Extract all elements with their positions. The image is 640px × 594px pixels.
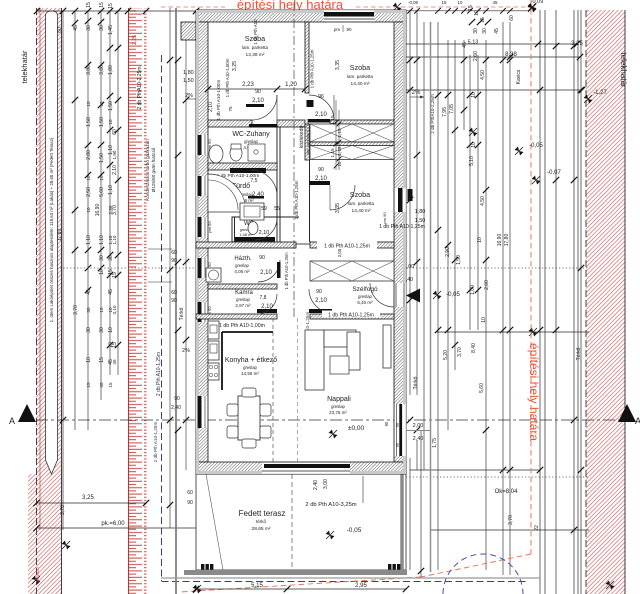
red dashed building limit vertical [530,0,532,554]
door arc middle szoba [330,185,355,210]
TL szoba door bar [249,124,277,128]
svg-text:90: 90 [259,255,265,261]
svg-text:90: 90 [346,27,352,32]
svg-text:1 db Pth A10-1,00m: 1 db Pth A10-1,00m [219,323,265,329]
svg-text:7,05: 7,05 [449,104,455,114]
svg-text:1,10: 1,10 [108,235,113,244]
svg-text:10: 10 [108,307,113,313]
right dimension chain lines [409,10,411,395]
svg-text:Szélfogó: Szélfogó [352,286,378,293]
wall above Hazth (full) [196,242,296,248]
svg-text:2,10: 2,10 [260,270,272,276]
svg-text:1 db Pth A10-1,25m: 1 db Pth A10-1,25m [310,49,315,88]
svg-text:1,80: 1,80 [415,209,426,215]
svg-text:15: 15 [112,272,118,278]
svg-text:60: 60 [112,129,118,135]
svg-text:5,60: 5,60 [99,187,105,197]
svg-text:5,10: 5,10 [469,156,475,166]
left 3,25 dimension [36,502,146,504]
svg-text:1,10: 1,10 [99,235,105,245]
svg-text:Ok=8,04: Ok=8,04 [495,489,519,495]
svg-text:greslap: greslap [243,365,257,370]
middle szoba door bar [309,181,330,185]
svg-text:45: 45 [494,28,500,34]
wall between Hazth and Kamra [208,284,277,289]
svg-text:90: 90 [318,167,324,173]
svg-text:1 db Pth A10-1,25m: 1 db Pth A10-1,25m [294,180,299,219]
walkway gray line right [430,22,432,572]
TL szoba dims [208,88,305,90]
wall below WC-Zuhany [208,163,277,170]
svg-text:greslap: greslap [331,404,345,409]
svg-text:1 db Pth A10-1,25m: 1 db Pth A10-1,25m [284,252,289,290]
svg-text:2 db Pth A10-1,25m: 2 db Pth A10-1,25m [153,422,158,463]
svg-text:1,20: 1,20 [285,82,297,88]
capsule label area [46,11,58,474]
svg-text:1,90: 1,90 [112,150,117,159]
far right lines [539,10,541,594]
svg-text:Fedett terasz: Fedett terasz [239,509,286,518]
svg-text:2%: 2% [412,90,421,96]
svg-text:15: 15 [99,307,104,313]
szelfogo door bar [309,309,332,313]
svg-text:1,00: 1,00 [470,285,476,295]
svg-text:3,00: 3,00 [323,479,329,489]
fence comb column [129,8,147,594]
svg-text:30: 30 [99,25,105,31]
svg-text:16,90: 16,90 [95,204,101,217]
svg-text:4,50: 4,50 [480,70,486,80]
section line A-A [36,419,627,421]
svg-text:Kamra: Kamra [235,290,253,296]
svg-text:2,97 m²: 2,97 m² [235,303,251,308]
svg-text:1 db Pth A10-1,25m: 1 db Pth A10-1,25m [324,244,370,250]
svg-text:Kondenzációs turbó gázkazán: Kondenzációs turbó gázkazán [145,139,150,201]
svg-text:±0,00: ±0,00 [348,425,365,432]
svg-text:WC-Zuhany: WC-Zuhany [232,131,270,138]
insulation bands [196,10,406,13]
svg-text:10: 10 [477,237,483,243]
top dimension row right [406,10,530,12]
svg-text:7,8: 7,8 [260,295,267,301]
svg-text:2,95: 2,95 [355,583,367,589]
top wall window [324,11,374,22]
svg-text:45: 45 [112,359,117,365]
near-house dimension lines left [169,8,171,528]
svg-text:60: 60 [509,15,515,21]
svg-text:30: 30 [86,307,91,313]
terrace posts [201,564,204,570]
svg-text:90: 90 [171,258,177,264]
svg-text:10: 10 [86,357,92,363]
svg-text:1,10: 1,10 [86,235,92,245]
house left wall [196,22,208,462]
svg-text:10: 10 [481,317,487,323]
svg-text:15: 15 [442,0,447,5]
porch stub wall top-left [181,22,196,40]
svg-text:lam. parketta: lam. parketta [347,74,374,79]
terrace bottom gray band [184,570,407,575]
svg-text:2,80: 2,80 [86,150,92,160]
svg-text:5,60: 5,60 [479,383,485,393]
svg-text:4,50: 4,50 [480,196,486,206]
wc-zuhany fixtures [209,145,223,163]
dotted reference lines [60,267,196,269]
svg-text:2,10: 2,10 [315,176,327,182]
svg-text:28,65 m²: 28,65 m² [252,526,271,532]
svg-text:2,40: 2,40 [313,480,319,490]
svg-text:Tervező: Tervező [35,567,40,583]
svg-text:90: 90 [316,289,322,295]
svg-text:2,10: 2,10 [315,112,327,118]
svg-text:17,80: 17,80 [504,234,510,247]
svg-text:1,15: 1,15 [330,148,336,158]
svg-text:1 db Pth A10-1,25m: 1 db Pth A10-1,25m [379,224,425,230]
thin wall between top rooms [305,22,309,93]
svg-text:75: 75 [228,106,233,112]
svg-text:3,70: 3,70 [457,347,463,357]
svg-text:Térkő: Térkő [413,376,419,389]
future pool blue dashed arc [443,554,523,594]
svg-text:60: 60 [57,27,63,33]
svg-text:15: 15 [86,2,92,8]
svg-text:lam. parketta: lam. parketta [348,201,375,206]
svg-text:Nappali: Nappali [327,396,351,403]
terrace drainage lines [206,474,223,570]
svg-text:3,70: 3,70 [73,305,79,315]
house bottom wall [196,462,406,474]
svg-text:45: 45 [493,0,498,5]
svg-text:2,10: 2,10 [259,230,270,236]
section marker A left [18,404,36,422]
left dimension chain lines [62,11,64,530]
svg-text:1,80: 1,80 [183,70,194,76]
svg-text:greslap: greslap [236,297,250,302]
svg-text:3,35: 3,35 [335,60,341,70]
svg-text:1,50: 1,50 [86,117,92,127]
WC small walls [232,217,235,242]
section marker A right [618,404,636,422]
svg-text:2,10: 2,10 [208,102,214,112]
entrance arrow [406,289,420,303]
svg-text:10: 10 [86,101,91,107]
svg-text:5,15: 5,15 [251,583,263,589]
svg-text:1,50: 1,50 [456,255,462,265]
svg-text:5,20: 5,20 [443,350,449,360]
svg-text:2,25: 2,25 [132,35,138,45]
svg-text:30: 30 [482,28,488,34]
furdo fixtures [208,174,246,212]
sofa L [305,330,324,390]
svg-text:15: 15 [99,357,105,363]
svg-text:2,40: 2,40 [171,405,181,411]
wall below top-left szoba [208,120,252,127]
wardrobe X band 2 [310,146,394,160]
svg-text:90: 90 [171,298,177,304]
pk 6,00 dimension [36,527,199,529]
red dashed diagonal bottom [421,554,531,577]
svg-text:23,76 m²: 23,76 m² [329,410,347,415]
kitchen counter [222,331,273,333]
svg-text:30: 30 [99,255,105,261]
svg-text:Ø125/80 gvän füstcső: Ø125/80 gvän füstcső [151,147,156,192]
svg-text:Szoba: Szoba [350,63,370,72]
svg-text:3,70: 3,70 [508,515,514,525]
svg-text:telekhatár: telekhatár [619,52,628,87]
svg-text:15: 15 [112,342,118,348]
red dashed top [161,6,531,8]
svg-text:1,15: 1,15 [337,146,342,155]
svg-text:1,80: 1,80 [108,65,114,75]
left plot boundary strip (telekhatar) [36,8,62,594]
svg-text:96: 96 [318,94,324,100]
svg-text:7,5: 7,5 [251,178,258,184]
svg-text:2 db Pth A10-3,25m: 2 db Pth A10-3,25m [305,502,356,508]
svg-text:lam. parketta 6,27 m²: lam. parketta 6,27 m² [306,118,310,155]
door arc szelfogo bottom [309,289,333,313]
svg-text:4,05 m²: 4,05 m² [234,269,250,274]
svg-text:5,13: 5,13 [468,40,479,46]
svg-text:lam. parketta: lam. parketta [242,45,269,50]
svg-text:pm 50: pm 50 [207,221,212,233]
svg-text:30: 30 [99,327,105,333]
svg-text:10: 10 [99,269,105,275]
svg-text:6,40 m²: 6,40 m² [357,300,373,305]
right plot boundary strip [586,10,625,594]
wardrobe divider wall [310,142,394,146]
svg-text:-1,27: -1,27 [593,90,607,96]
svg-text:10: 10 [99,101,104,107]
corridor dash line [293,2,295,320]
hazth fixture [206,268,221,282]
wc fixture [248,222,258,235]
house top wall [196,10,406,22]
door arc Kamra [257,294,277,314]
svg-text:2,10: 2,10 [315,298,327,304]
svg-text:3,70: 3,70 [60,505,66,515]
svg-text:-0,07: -0,07 [547,170,561,176]
svg-text:7,95: 7,95 [442,107,448,117]
svg-text:2,10: 2,10 [261,304,273,310]
door arc Hazth [258,260,280,282]
svg-text:1 db Pth A10-1,00m: 1 db Pth A10-1,00m [225,58,230,97]
svg-text:90: 90 [384,421,389,426]
svg-text:1 db Pth A10-1,25m: 1 db Pth A10-1,25m [328,313,374,319]
svg-text:14,56 m²: 14,56 m² [241,371,259,376]
svg-text:30: 30 [473,28,479,34]
door arc Furdo [251,170,277,196]
svg-text:-0,05: -0,05 [347,527,362,534]
svg-text:55: 55 [274,206,280,212]
svg-text:A: A [9,416,15,426]
phase 1 blue dashed boundary [161,55,163,581]
left wall windows [197,135,208,155]
svg-text:10: 10 [86,175,91,181]
svg-text:2,10: 2,10 [252,98,264,104]
svg-text:45: 45 [99,382,104,388]
svg-text:60: 60 [171,290,177,296]
tv cabinet [383,325,391,368]
door arc WC [255,218,277,240]
covered terrace outline [196,474,406,570]
svg-text:10: 10 [471,92,477,98]
wardrobe X band 1 [310,124,394,142]
svg-text:3,80: 3,80 [86,65,92,75]
armchair [347,332,360,370]
svg-text:2,90: 2,90 [445,247,451,257]
svg-text:Konyha + étkező: Konyha + étkező [225,357,277,364]
svg-text:1,50: 1,50 [99,117,105,127]
right wall entrance door [395,283,406,307]
svg-text:30: 30 [86,327,92,333]
svg-text:2%: 2% [185,93,193,99]
coffee table [330,356,349,374]
stove [208,363,219,380]
svg-text:45: 45 [73,25,79,31]
svg-text:greslap: greslap [244,139,258,144]
left top dim line [37,10,196,12]
svg-text:Szoba: Szoba [350,190,370,199]
dining table [238,396,260,440]
svg-text:3,35: 3,35 [335,203,341,213]
svg-text:15: 15 [86,382,91,388]
right wall window middle [395,188,406,212]
wall below Kamra / top of Konyha [196,314,277,319]
bottom-left marks [62,541,71,550]
svg-text:3,25: 3,25 [82,495,94,501]
nappali window right [395,404,406,456]
svg-text:10: 10 [108,327,114,333]
svg-text:2%: 2% [182,348,190,354]
svg-text:45: 45 [108,289,114,295]
svg-text:15: 15 [480,17,486,23]
svg-text:17,80: 17,80 [57,229,63,242]
svg-text:13,39 m²: 13,39 m² [246,52,265,58]
svg-text:térkő: térkő [256,519,267,524]
svg-text:-0,09: -0,09 [408,0,419,5]
terrace right gray band [400,474,404,570]
svg-text:Kavics: Kavics [516,69,522,84]
wardrobe dim line [338,110,340,170]
svg-text:60: 60 [171,250,177,256]
svg-text:greslap: greslap [358,294,372,299]
corridor right wall [305,124,310,160]
svg-text:Térkő: Térkő [576,347,582,360]
svg-text:15: 15 [108,382,113,388]
svg-text:90: 90 [174,396,180,402]
svg-text:-0,09: -0,09 [531,0,544,5]
svg-text:1,15: 1,15 [337,128,342,137]
svg-text:10: 10 [99,175,104,181]
svg-text:greslap: greslap [235,263,249,268]
terrace bottom dimension [196,588,406,590]
svg-text:1,50: 1,50 [108,101,114,111]
svg-text:1,75: 1,75 [432,438,438,448]
door arc corridor to TR szoba [309,95,334,120]
svg-text:45: 45 [86,289,92,295]
svg-text:pk.=6,00: pk.=6,00 [101,521,125,527]
svg-text:közlekedő: közlekedő [299,126,305,149]
svg-text:pm 90: pm 90 [382,212,387,224]
svg-text:pm: pm [334,27,341,32]
svg-text:30: 30 [86,25,92,31]
svg-text:14,40 m²: 14,40 m² [351,81,370,87]
svg-text:-0,05: -0,05 [446,292,460,298]
kitchen window left [197,396,208,428]
svg-text:2 db PthA10-2,25m: 2 db PthA10-2,25m [137,66,143,109]
svg-text:1. ütem Lakóépület összes hasz: 1. ütem Lakóépület összes hasznos alapte… [49,137,54,322]
svg-text:2,60: 2,60 [473,51,479,61]
svg-text:10: 10 [108,119,113,125]
door bar corridor top [308,119,330,123]
sink unit [208,321,219,339]
svg-text:Házth.: Házth. [234,256,252,262]
svg-text:2,00: 2,00 [484,280,490,290]
svg-text:1,50: 1,50 [99,153,105,163]
svg-text:16,90: 16,90 [497,234,503,247]
svg-text:59: 59 [261,206,267,212]
svg-text:10: 10 [458,0,463,5]
bottom wall sliding door [262,463,350,474]
svg-text:2,00: 2,00 [413,423,424,429]
fridge [208,341,219,360]
svg-text:90: 90 [255,89,261,95]
door arc TL szoba [252,95,277,120]
svg-text:30: 30 [108,255,114,261]
svg-text:3,25: 3,25 [232,61,238,71]
svg-text:1 db Pth A10-1,00m: 1 db Pth A10-1,00m [216,80,221,121]
svg-text:1,45: 1,45 [108,25,114,35]
svg-text:A: A [635,416,640,426]
svg-text:14,40 m²: 14,40 m² [352,208,371,214]
house right wall [394,22,406,462]
svg-text:60: 60 [187,490,193,496]
svg-text:Térkő: Térkő [179,307,185,320]
svg-text:2,23: 2,23 [242,82,254,88]
svg-text:15: 15 [99,2,105,8]
svg-text:8,40: 8,40 [471,343,477,353]
svg-text:telekhatár: telekhatár [20,50,29,83]
svg-text:építési hely határa: építési hely határa [527,343,541,441]
svg-text:10: 10 [471,142,477,148]
svg-text:3,80: 3,80 [99,65,105,75]
szelfogo closet X row [310,261,394,281]
svg-text:15: 15 [108,3,114,9]
svg-text:2,50: 2,50 [86,187,92,197]
svg-text:2,40: 2,40 [413,436,424,442]
door arc entrance [370,283,394,307]
svg-text:1,50: 1,50 [183,78,194,84]
svg-text:2,05: 2,05 [337,248,342,257]
svg-text:10: 10 [86,207,91,213]
svg-text:2,10: 2,10 [112,165,118,175]
svg-text:1 db Pth A10: 1 db Pth A10 [253,19,258,45]
svg-text:1,10: 1,10 [108,185,114,195]
svg-text:2,50: 2,50 [108,205,113,214]
corridor left wall [277,127,280,243]
svg-text:90: 90 [187,500,193,506]
